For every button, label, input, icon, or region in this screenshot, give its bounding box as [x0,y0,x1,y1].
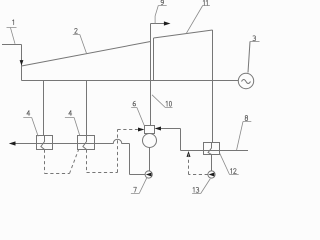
valve 13 arrow (flow left) [209,173,215,177]
wire: main steam inlet horizontal [2,44,22,46]
dashed drain: heater 4a down [44,150,46,174]
generator 3 sine symbol [242,80,251,84]
label 10 digits [166,101,167,106]
dashed drain into deaerator box [118,129,138,131]
label 13 digits [193,187,194,192]
label 9 underline and leader [155,6,167,24]
label 12 digits [231,169,232,174]
wire: feedwater line with hop over drain riser [13,139,130,143]
dashed drain: heater 4a right [45,173,70,175]
label 8 underline and leader [237,122,252,151]
heater 4a box [37,136,53,150]
dashed drain: diagonal up to heater 4b [70,150,79,174]
label 7 underline and leader [131,178,147,194]
arrow: steam into deaerator (pointing left) [155,127,161,131]
generator 3 circle [238,73,253,88]
wire: extraction to heater 4a [43,81,45,136]
label 8 digit [245,116,248,121]
label 9 digit [161,0,164,5]
label 1 digit [13,20,14,25]
wire: feedwater to pump 7 [130,174,146,176]
wire: turbine bottom edge and shaft to generator [22,80,239,82]
label 6 underline and leader [131,108,144,126]
arrow: line 9 flow right [164,21,171,25]
wire: down leg x=180 [180,129,182,151]
arrow: feedwater exit left [9,141,16,145]
label 4b digit [69,111,72,116]
label 4b underline and leader [65,118,80,136]
label 10 underline and leader [152,95,173,108]
wire: process water line 8 through heater 12 [181,150,249,152]
pump 7 arrow (flow left) [146,173,152,177]
label 4a digit [27,111,30,116]
label 2 underline and leader [73,35,87,54]
wire: main steam inlet vertical [21,45,23,81]
wire: extraction to heater 4b [86,81,88,136]
dashed drain riser to deaerator [117,130,119,173]
dashed: valve 13 outlet left [189,174,208,176]
deaerator 6 tank circle [143,134,157,148]
wire: deaerator right connection [161,128,181,130]
deaerator 6 head box [145,126,155,134]
arrow: drain return up into line 8 [187,151,191,157]
wire: heater 12 drain to valve 13 [211,155,213,172]
label 4a underline and leader [23,118,38,137]
wire: line 9 horizontal out [151,23,165,25]
label 1 underline and leader [7,28,17,44]
heater 4a zigzag [41,136,45,150]
label 11 digits [203,0,204,5]
turbine 2: right/exhaust edge down to heater 12 [212,30,214,143]
turbine 2: LP section top edge [154,30,213,38]
arrow: steam inlet into turbine (down) [20,60,24,65]
leader for label 3 [248,42,250,73]
dashed drain: heater 4b right [87,172,118,174]
wire: feedwater down leg [129,144,131,175]
label 12 underline and leader [220,153,239,174]
pump 7 circle [145,171,152,178]
label 3 digit [253,36,256,41]
heater 4b box [78,136,95,150]
turbine 2: HP section top edge [22,42,151,67]
wire: extraction line 9 vertical (through turbine to deaerator) [150,24,152,126]
label 7 digit [134,187,137,192]
arrow: heater drains into deaerator (pointing right) [138,128,144,132]
wire: deaerator tank to pump 7 [149,148,151,172]
turbine 2: LP section left edge [153,38,155,81]
dashed drain: heater 4b down [86,150,88,173]
heater 4b zigzag [83,136,87,150]
label 6 digit [133,101,136,106]
valve 13 circle [208,171,215,178]
dashed: drain return riser [188,153,190,175]
heater 12 zigzag [208,143,211,155]
label 13 underline and leader [192,179,210,194]
label 3 underline [250,41,260,43]
heater 12 box [204,143,220,155]
label 11 underline and leader [186,6,210,34]
label 2 digit [75,28,78,33]
